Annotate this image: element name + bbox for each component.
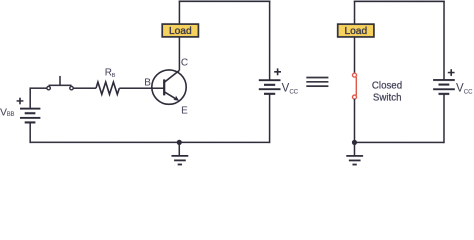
ground 1 bar mid [174, 159, 186, 161]
wire: switch to RB [73, 87, 96, 89]
battery VCC1 plate short [264, 84, 275, 86]
battery VCC2 plate long [433, 88, 455, 90]
wire: top rail right circuit [354, 0, 445, 2]
switch S1 right terminal [70, 86, 74, 90]
wire: VCC2 top stub [443, 1, 445, 80]
wire: VBB bottom stub [29, 122, 31, 143]
ground 2 stub [353, 142, 355, 156]
battery VCC2 plate long top [433, 79, 455, 81]
ground 2 bar small [352, 164, 356, 166]
wire: VCC1 bottom stub [269, 94, 271, 143]
battery VBB plate short bottom [25, 121, 36, 123]
svg-text:Switch: Switch [373, 92, 402, 103]
battery VCC2 plate short [438, 84, 449, 86]
resistor RB zigzag [96, 82, 119, 94]
battery VCC1 plate short bottom [264, 93, 275, 95]
svg-text:CC: CC [464, 89, 473, 96]
wire: RB to transistor base [119, 87, 163, 89]
wire: VCC2 bottom stub [443, 94, 445, 143]
switch S1 actuator [59, 76, 61, 85]
closed switch top terminal (red) [353, 73, 357, 77]
wire: VCC1 top stub [269, 1, 271, 80]
wire: bottom rail right circuit [354, 141, 444, 143]
battery VCC1 plate long top [259, 79, 281, 81]
svg-text:CC: CC [289, 89, 298, 96]
svg-text:Load: Load [169, 26, 192, 37]
junction node left [177, 140, 182, 145]
svg-text:C: C [181, 58, 188, 69]
svg-text:E: E [181, 105, 188, 116]
closed switch blade (red) [355, 77, 357, 96]
transistor Q1 emitter line [164, 92, 177, 100]
battery VBB plate long top [20, 108, 40, 110]
svg-text:B: B [112, 73, 116, 79]
junction node right [352, 140, 357, 145]
plus sign VBB [17, 98, 24, 105]
ground 1 bar wide [171, 155, 188, 157]
load box 1 [162, 24, 198, 37]
battery VCC2 plate short bottom [438, 93, 449, 95]
equivalence symbol [306, 78, 328, 87]
transistor Q1 emitter arrowhead [173, 96, 179, 101]
battery VBB plate long [20, 117, 40, 119]
switch S1 left terminal [47, 86, 51, 90]
transistor Q1 base bar [163, 79, 165, 95]
closed switch bottom terminal (red) [352, 95, 356, 99]
wire: collector up to top rail (through load) [178, 1, 180, 70]
battery VBB plate short [25, 112, 36, 114]
ground 2 bar mid [349, 159, 361, 161]
wire: right circuit left rail bottom [353, 99, 355, 143]
svg-text:Closed: Closed [372, 80, 402, 91]
ground 2 bar wide [346, 155, 363, 157]
ground 1 bar small [178, 163, 182, 165]
svg-text:Load: Load [344, 26, 367, 37]
svg-text:BB: BB [7, 112, 15, 118]
wire: bottom rail left circuit [30, 141, 269, 143]
load box 2 [338, 24, 374, 37]
wire: right circuit left rail top (to switch) [354, 1, 356, 73]
ground 1 stub [178, 142, 180, 156]
transistor Q1 collector line [164, 70, 179, 82]
switch S1 bar (closed contact bar) [49, 84, 72, 86]
plus sign VCC2 [448, 69, 455, 76]
svg-text:B: B [144, 78, 151, 89]
plus sign VCC1 [274, 68, 281, 75]
wire: VBB top stub and run to switch left terminal [30, 88, 46, 109]
transistor Q1 circle [152, 70, 186, 104]
battery VCC1 plate long [259, 88, 281, 90]
wire: top rail left circuit [179, 0, 271, 2]
